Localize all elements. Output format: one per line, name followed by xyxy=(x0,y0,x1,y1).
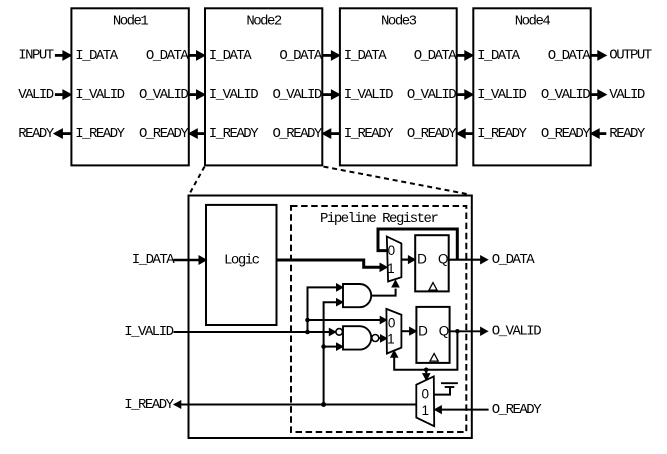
wire Node4 O_DATA to OUTPUT xyxy=(591,54,598,57)
A2 input bubble xyxy=(336,329,343,336)
wire Node1 I_READY to READY (left arrow) xyxy=(62,132,71,135)
svg-text:Q: Q xyxy=(438,252,449,267)
logic-high tie on mux M3 input 0 xyxy=(434,388,450,395)
wire Node3 I_READY to Node2 O_READY (left arrow) xyxy=(331,132,340,135)
svg-text:I_VALID: I_VALID xyxy=(477,87,526,103)
svg-text:Node1: Node1 xyxy=(113,14,149,30)
svg-text:O_VALID: O_VALID xyxy=(541,87,590,103)
svg-text:I_VALID: I_VALID xyxy=(344,87,393,103)
svg-text:D: D xyxy=(418,324,428,339)
wire AND A1 output to mux M1 select xyxy=(371,289,395,296)
svg-text:0: 0 xyxy=(388,316,396,331)
svg-text:I_READY: I_READY xyxy=(124,397,174,413)
svg-text:I_VALID: I_VALID xyxy=(124,324,173,340)
wire Node2 I_READY to Node1 O_READY (left arrow) xyxy=(197,132,205,135)
svg-text:Node2: Node2 xyxy=(246,14,282,30)
wire I_VALID main line xyxy=(174,331,330,333)
svg-text:O_READY: O_READY xyxy=(492,402,542,418)
node box Node4 xyxy=(473,8,590,165)
wire O_READY into mux M3 input 1 xyxy=(441,409,488,411)
logic block U_LOGIC xyxy=(206,205,277,325)
svg-text:O_DATA: O_DATA xyxy=(146,48,190,64)
svg-text:I_VALID: I_VALID xyxy=(209,87,258,103)
wire mux M2 to DFF2 D xyxy=(401,330,410,332)
svg-text:O_VALID: O_VALID xyxy=(407,87,456,103)
mux M3 (ready mux, mirrored) xyxy=(416,376,434,426)
svg-text:Node4: Node4 xyxy=(515,14,551,30)
DFF1 clock triangle xyxy=(429,283,437,291)
junction riser/NAND tap xyxy=(321,344,326,349)
svg-text:1: 1 xyxy=(387,261,395,276)
svg-text:OUTPUT: OUTPUT xyxy=(609,48,652,64)
wire O_VALID feedback to mux M2 select xyxy=(394,331,457,370)
node box Node3 xyxy=(340,8,457,165)
svg-text:O_DATA: O_DATA xyxy=(548,48,592,64)
svg-text:O_READY: O_READY xyxy=(541,126,591,142)
svg-text:O_READY: O_READY xyxy=(407,126,457,142)
wire mux M1 to DFF1 D xyxy=(401,259,409,261)
svg-text:0: 0 xyxy=(422,387,430,402)
svg-text:I_READY: I_READY xyxy=(344,126,394,142)
svg-text:O_VALID: O_VALID xyxy=(139,87,188,103)
callout dashed line right (Node2 to detail box) xyxy=(324,167,469,195)
wire I_READY riser to AND A1 bottom input xyxy=(324,302,337,404)
wire mux M3 output to I_READY xyxy=(181,404,417,406)
wire Node3 O_DATA to Node4 I_DATA xyxy=(457,54,465,57)
wire I_DATA into Logic xyxy=(173,259,199,262)
svg-text:I_DATA: I_DATA xyxy=(132,252,176,268)
wire READY to Node4 O_READY (left arrow) xyxy=(599,132,606,135)
junction I_VALID/vertical xyxy=(305,330,310,335)
svg-text:Q: Q xyxy=(439,324,450,339)
DFF2 clock triangle xyxy=(430,354,438,362)
detail outer box (Node2 internals) xyxy=(189,196,472,439)
wire VALID to Node1 I_VALID xyxy=(55,93,63,96)
wire DFF1 Q to O_DATA xyxy=(449,259,481,261)
callout dashed line left (Node2 to detail box) xyxy=(189,167,204,195)
junction valid branch xyxy=(305,318,310,323)
svg-text:Pipeline Register: Pipeline Register xyxy=(320,211,438,227)
mux M1 (data mux) xyxy=(387,237,402,282)
wire Node4 O_VALID to VALID xyxy=(591,93,598,96)
svg-text:1: 1 xyxy=(422,403,430,418)
wire Node1 O_DATA to Node2 I_DATA xyxy=(189,54,197,57)
wire Logic output to mux M1 input 1 (data, thick) xyxy=(277,260,380,267)
svg-text:READY: READY xyxy=(18,126,55,142)
svg-text:I_VALID: I_VALID xyxy=(75,87,124,103)
wire riser tap to NAND A2 bottom input xyxy=(324,346,337,348)
NAND gate A2 (inverted top input) xyxy=(343,326,371,349)
flip-flop DFF1 (data register) xyxy=(415,235,449,291)
wire Node2 O_VALID to Node3 I_VALID xyxy=(322,93,331,96)
svg-text:O_VALID: O_VALID xyxy=(272,87,321,103)
node box Node1 xyxy=(71,8,188,165)
svg-text:INPUT: INPUT xyxy=(18,48,54,64)
node box Node2 xyxy=(205,8,322,165)
junction feedback/mux M3 select xyxy=(424,368,429,373)
A2 output bubble xyxy=(372,335,379,342)
svg-text:O_DATA: O_DATA xyxy=(492,252,536,268)
wire I_VALID branch to mux M2 input 0 xyxy=(308,319,381,321)
wire INPUT to Node1 I_DATA xyxy=(55,54,63,57)
junction riser/I_READY xyxy=(321,402,326,407)
svg-text:I_READY: I_READY xyxy=(209,126,259,142)
svg-text:READY: READY xyxy=(609,126,646,142)
wire I_VALID up to AND A1 top input xyxy=(308,287,337,332)
pipeline register dashed box xyxy=(291,206,466,432)
wire Node4 I_READY to Node3 O_READY (left arrow) xyxy=(465,132,473,135)
wire DFF2 Q to O_VALID xyxy=(450,330,481,332)
svg-text:I_DATA: I_DATA xyxy=(75,48,119,64)
svg-text:O_READY: O_READY xyxy=(272,126,322,142)
wire Node2 O_DATA to Node3 I_DATA xyxy=(322,54,331,57)
svg-text:O_VALID: O_VALID xyxy=(492,324,541,340)
svg-text:I_DATA: I_DATA xyxy=(477,48,521,64)
svg-text:I_READY: I_READY xyxy=(477,126,527,142)
flip-flop DFF2 (valid register) xyxy=(416,307,449,363)
svg-text:I_DATA: I_DATA xyxy=(344,48,388,64)
junction O_VALID feedback xyxy=(455,329,460,334)
wire feedback to mux M3 select xyxy=(425,370,427,374)
svg-text:VALID: VALID xyxy=(18,87,54,103)
AND gate A1 xyxy=(343,284,371,307)
svg-text:O_READY: O_READY xyxy=(139,126,189,142)
svg-text:VALID: VALID xyxy=(609,87,645,103)
svg-text:I_DATA: I_DATA xyxy=(209,48,253,64)
svg-text:O_DATA: O_DATA xyxy=(279,48,323,64)
wire DFF1 Q feedback to mux M1 input 0 (thick loop) xyxy=(378,229,457,261)
wire Node3 O_VALID to Node4 I_VALID xyxy=(457,93,465,96)
wire A2 output to mux M2 input 1 xyxy=(379,337,381,339)
svg-text:O_DATA: O_DATA xyxy=(414,48,458,64)
mux M2 (valid mux) xyxy=(386,309,401,354)
svg-text:Node3: Node3 xyxy=(381,14,417,30)
wire Node1 O_VALID to Node2 I_VALID xyxy=(189,93,197,96)
svg-text:0: 0 xyxy=(388,243,396,258)
svg-text:Logic: Logic xyxy=(224,252,260,268)
svg-text:D: D xyxy=(417,252,427,267)
svg-text:1: 1 xyxy=(387,332,395,347)
svg-text:I_READY: I_READY xyxy=(75,126,125,142)
